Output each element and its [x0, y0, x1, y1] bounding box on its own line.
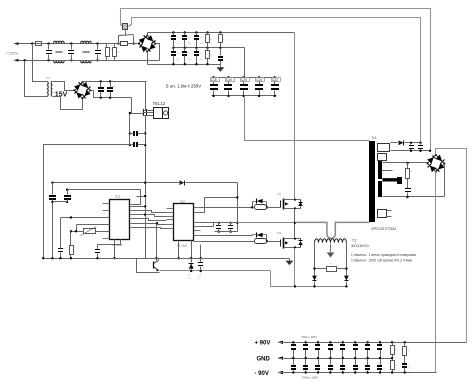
node mid rail col2 — [184, 47, 186, 49]
label C20 — [241, 78, 250, 82]
wire IC2 pin jog up — [201, 223, 214, 227]
wire CT secondary right down — [346, 243, 348, 275]
bridge rectifier VD2 (aux 15V) — [75, 83, 91, 99]
label C22 — [272, 78, 281, 82]
capacitor C19b under IC1 — [98, 240, 121, 245]
output capacitor C32 (top row) — [366, 341, 368, 343]
svg-text:IR-2110: IR-2110 — [178, 244, 188, 248]
node A8 — [132, 42, 134, 44]
svg-text:Tr1: Tr1 — [372, 136, 377, 140]
wire 0V rail — [148, 64, 221, 66]
wire caps top rail — [214, 222, 238, 224]
diode VD8 — [344, 276, 349, 281]
capacitor C13 (regulator input) — [143, 109, 144, 116]
wire input drop to aux transformer primary bottom — [24, 59, 26, 61]
wire IC2 bottom pin drop b — [200, 245, 202, 259]
MOSFET Q2 body diode — [300, 239, 302, 241]
choke L1 bottom winding — [54, 60, 65, 63]
wire IC2 bottom pin drop c — [178, 241, 180, 259]
svg-text:5 шт. 1.0м x 250V: 5 шт. 1.0м x 250V — [166, 84, 201, 89]
wire caps bottom rail — [215, 231, 238, 233]
svg-text:Tr3: Tr3 — [46, 76, 50, 80]
snubber resistor R12 — [406, 162, 408, 164]
node A4 — [70, 59, 72, 61]
wire IC2 jog to x237 — [201, 198, 238, 213]
wire lower aux rail y=271 — [160, 270, 271, 272]
varistor RU2 — [114, 44, 116, 48]
svg-text:C22: C22 — [272, 78, 278, 82]
output capacitor C40 (bottom row) — [367, 359, 369, 366]
node A1 — [47, 42, 49, 44]
output capacitor C38 (bottom row) — [342, 359, 344, 366]
gate network diode VD6 — [201, 235, 253, 237]
capacitor C17 — [66, 189, 68, 191]
node top rail col2 — [184, 31, 186, 33]
transformer Tr1 aux winding stub bottom — [391, 150, 431, 152]
wire aux bridge minus rail — [91, 91, 132, 98]
wire secondary center tap thick — [382, 178, 399, 181]
capacitor C18 — [212, 76, 214, 78]
wire y=189.7 to IC1 — [68, 190, 141, 205]
wire IC1-IC2 link 2 — [133, 219, 167, 221]
svg-text:32X16X10: 32X16X10 — [351, 244, 369, 248]
wire gate 2 to MOSFET — [267, 241, 281, 243]
wire bridge bottom to 0 rail — [147, 52, 149, 65]
transistor Q3 base loop — [137, 258, 157, 260]
wire left loop to control ground — [44, 145, 130, 259]
diode VD4 — [190, 270, 192, 272]
wire down to transistor — [156, 224, 158, 261]
relay contact K1.1 — [118, 36, 120, 44]
svg-text:1n: 1n — [408, 368, 410, 370]
wire stub y=196 — [137, 196, 146, 198]
wire mid rail — [174, 47, 245, 49]
svg-text:C19: C19 — [226, 78, 232, 82]
choke L1 top winding — [54, 41, 65, 44]
transformer Tr1 winding symbol 2 — [378, 154, 387, 161]
aux capacitor C23 — [410, 142, 412, 144]
node top rail col1 — [172, 31, 174, 33]
node mid rail col3 — [195, 47, 197, 49]
capacitor C7 (bottom row) — [173, 48, 175, 52]
wire Vcc rail y=182.7 — [53, 182, 180, 184]
node mid rail col4 — [206, 47, 208, 49]
transformer Tr1 lower winding symbol — [378, 210, 387, 218]
svg-text:EPCOS ETD54: EPCOS ETD54 — [372, 227, 397, 231]
ground control rail — [289, 259, 291, 261]
wire input drop to aux transformer primary top — [31, 42, 33, 44]
transformer Tr1 primary bar — [369, 141, 375, 222]
transformer Tr1 aux winding stub top — [391, 142, 398, 144]
wire IC1 pin to 12V rail b — [133, 214, 146, 216]
svg-text:C18: C18 — [211, 78, 217, 82]
svg-text:C20: C20 — [241, 78, 247, 82]
capacitor C6 (top row) — [196, 33, 198, 36]
diode VD7 — [312, 276, 317, 281]
capacitor C3 — [95, 50, 101, 51]
current transformer T2 core arrow — [330, 244, 332, 253]
resistor R8 — [70, 232, 72, 242]
wire half-bridge mid node — [294, 211, 296, 237]
transformer Tr1 secondary bar lower — [378, 181, 382, 197]
svg-text:T.2: T.2 — [352, 239, 357, 243]
capacitor C9 (bottom row) — [196, 48, 198, 52]
wire secondary top to aux bridge — [55, 82, 75, 91]
IC U2 left pins — [167, 208, 174, 210]
wire film bank bottom rail — [212, 95, 277, 97]
MOSFET Q1 — [280, 201, 282, 208]
node aux rail outer — [429, 150, 431, 152]
capacitor C12 (aux filter) — [109, 80, 111, 82]
AC input terminal lower — [14, 59, 19, 62]
output terminal +90V — [278, 341, 284, 344]
choke L2 top winding — [81, 41, 92, 44]
capacitor C20 — [242, 76, 244, 78]
wire gnd drop from regulator (x=130) — [129, 113, 131, 145]
transformer Tr1 secondary bar upper — [378, 161, 382, 179]
gate network diode VD5 — [201, 207, 253, 209]
capacitor C8 (bottom row) — [184, 48, 186, 52]
wire output bridge right to AC — [444, 164, 446, 197]
node mid rail col1 — [172, 47, 174, 49]
wire AC bottom line to bridge — [65, 60, 160, 62]
capacitor C1 — [46, 50, 52, 51]
output capacitor C28 (top row) — [317, 341, 319, 343]
wire gate 1 to MOSFET — [267, 207, 281, 209]
wire y=217.5 from cap to IC1 — [61, 217, 110, 219]
wire IC2 bottom pin drop a — [191, 241, 193, 259]
wire mid rail down to film cap bank — [244, 48, 246, 78]
wire IC1-IC2 link 4 — [133, 228, 167, 229]
wire film bank top rail — [212, 77, 277, 79]
gate resistor R10 — [255, 239, 267, 244]
MOSFET Q1 body diode — [300, 200, 302, 203]
output capacitor C26 (top row) — [292, 341, 294, 343]
capacitor C42 (right column) — [404, 361, 406, 364]
choke L2 core — [83, 51, 90, 53]
label C19 — [226, 78, 235, 82]
resistor R15 (right column) — [404, 341, 406, 343]
wire trimmer left down — [71, 231, 84, 233]
wire bridge right to AC2 — [156, 44, 160, 61]
aux capacitor C24 — [419, 142, 421, 144]
capacitor C16 — [51, 182, 53, 184]
svg-text:IC2: IC2 — [180, 200, 185, 204]
inrush resistor R3 — [121, 42, 128, 46]
wire jog down to CT rail — [271, 271, 347, 287]
snubber capacitor C25 — [405, 188, 411, 189]
MOSFET Q2 — [280, 240, 282, 247]
current transformer T2 secondary winding — [315, 239, 347, 243]
IC U1 left pins — [103, 203, 110, 205]
varistor RU1 — [106, 44, 108, 48]
wire IC1-IC2 link 3 — [133, 224, 167, 225]
output capacitor C29 (top row) — [329, 341, 331, 343]
wire secondary top to output bridge — [383, 162, 428, 164]
output capacitor C27 (top row) — [305, 341, 307, 343]
capacitor C22b — [200, 270, 202, 272]
trimmer R7 — [84, 229, 96, 234]
balancing resistor R13 (top) — [391, 341, 393, 343]
capacitor C21 — [258, 76, 260, 78]
wire aux minus to regulator — [132, 98, 143, 114]
svg-text:470м x 100V: 470м x 100V — [301, 335, 317, 339]
svg-text:+: + — [113, 84, 115, 88]
svg-text:Tv1: Tv1 — [277, 193, 282, 196]
fuse FU1 — [36, 42, 42, 46]
transformer Tr1 aux winding symbol — [378, 144, 390, 152]
wire -90V rail — [279, 372, 437, 374]
svg-text:- 90V: - 90V — [255, 371, 269, 377]
wire output bridge bottom — [435, 172, 437, 373]
node 0 rail col3 — [195, 63, 197, 65]
node A6 — [96, 59, 98, 61]
aux diode VD9 — [399, 140, 404, 145]
current transformer T2 primary loop — [295, 222, 369, 238]
capacitor C10 (to ground) — [220, 48, 222, 56]
balancing resistor R14 (bottom) — [392, 359, 394, 361]
output capacitor C37 (bottom row) — [330, 359, 332, 366]
node A2 — [47, 59, 49, 61]
wire IC1-IC2 link 5 — [155, 215, 167, 217]
capacitor C2 — [68, 50, 74, 51]
wire +310V rail — [148, 32, 295, 34]
node mid rail col5 — [219, 47, 221, 49]
svg-text:470м x 100V: 470м x 100V — [302, 375, 318, 379]
wire cap bottoms join — [53, 201, 68, 203]
capacitor C19 — [227, 76, 229, 78]
IC U1 right pins — [129, 204, 133, 206]
output bridge rectifier VD10 — [428, 155, 445, 172]
wire IC1 pin to 12V rail a — [133, 206, 146, 208]
wire aux loop outer top — [121, 9, 431, 151]
node A3 — [70, 42, 72, 44]
node 0 rail col4 — [206, 63, 208, 65]
burden resistor R11 — [327, 267, 337, 272]
output terminal GND — [278, 356, 284, 359]
choke L2 bottom winding — [81, 60, 92, 63]
capacitor C21b — [229, 222, 231, 224]
capacitor C14 (decoupling) — [129, 132, 131, 134]
svg-text:IC1: IC1 — [116, 195, 121, 199]
node x157 y223 — [156, 222, 158, 224]
node 0 rail col2 — [184, 63, 186, 65]
svg-text:GND: GND — [257, 356, 271, 362]
resistor R4 (top row) — [207, 33, 209, 35]
transformer Tr1 secondary mid tap — [382, 170, 393, 172]
wire IC1 bottom pin to ground rail — [114, 240, 116, 259]
node top rail col5 — [219, 31, 221, 33]
capacitor C22 — [274, 76, 276, 78]
capacitor C20b — [218, 222, 220, 224]
label C21 — [256, 78, 265, 82]
output capacitor C33 (top row) — [379, 341, 381, 343]
diode VD3 on Vcc rail — [180, 180, 185, 185]
wire x237 vertical — [237, 183, 239, 232]
svg-text:1n: 1n — [198, 277, 200, 279]
capacitor C15 (decoupling) — [129, 144, 131, 146]
transformer Tr3 primary winding — [46, 81, 49, 96]
output capacitor C39 (bottom row) — [355, 359, 357, 366]
transformer Tr1 lower winding stubs — [387, 210, 392, 212]
output capacitor C41 (bottom row) — [380, 359, 382, 366]
wire secondary bottom to aux bridge — [55, 97, 83, 110]
wire y=224 into IC1 — [77, 224, 110, 226]
wire +90V rail — [279, 342, 467, 344]
choke L1 core — [56, 51, 63, 53]
wire output bridge top — [436, 149, 467, 343]
wire film bank to primary top — [245, 96, 370, 141]
IC U2 right pins — [194, 207, 201, 209]
output capacitor C34 (bottom row) — [293, 359, 295, 366]
wire aux loop inner top — [132, 18, 421, 143]
capacitor C5 (top row) — [184, 33, 186, 36]
label C18 — [211, 78, 220, 82]
wire IC2 pin to mid rail — [201, 222, 214, 224]
svg-text:+ 90V: + 90V — [255, 341, 271, 347]
regulator U3 78L12 body — [154, 108, 163, 119]
node top rail col4 — [206, 31, 208, 33]
wire Q2 source down — [294, 250, 296, 287]
svg-text:2 обмотка - 2X50 100 витков d=: 2 обмотка - 2X50 100 витков d=0.2-0.4мм — [351, 258, 412, 262]
wire trimmer to IC1 — [96, 231, 110, 233]
wire aux bridge plus to 12V rail — [83, 82, 147, 83]
gate resistor R9 — [255, 205, 267, 210]
resistor R6 (top row col5) — [220, 33, 222, 35]
node A5 — [96, 42, 98, 44]
svg-text:Tv2: Tv2 — [277, 232, 282, 235]
node top rail col3 — [195, 31, 197, 33]
output capacitor C30 (top row) — [342, 341, 344, 343]
capacitor C18b — [60, 218, 62, 243]
IC U1 box — [110, 200, 130, 240]
bridge rectifier VD1 — [139, 36, 156, 52]
node 0 rail col1 — [172, 63, 174, 65]
transformer Tr3 secondary winding — [50, 81, 53, 96]
transistor Q3 — [153, 262, 155, 269]
wire CT secondary left down — [314, 243, 316, 275]
ground below capacitor bank — [220, 65, 222, 68]
capacitor C4 (top row) — [173, 33, 175, 36]
svg-text:1 обмотка - 1 виток, проводом: 1 обмотка - 1 виток, проводом 0=отмерани… — [351, 253, 416, 257]
output capacitor C31 (top row) — [354, 341, 356, 343]
output terminal -90V — [278, 371, 284, 374]
output capacitor C35 (bottom row) — [305, 359, 307, 366]
capacitor C11 (aux filter) — [100, 80, 102, 82]
AC input terminal upper — [14, 42, 19, 45]
wire IC1-IC2 link 1 — [133, 211, 167, 213]
resistor R5 (bottom row) — [207, 48, 209, 51]
wire secondary bottom rail — [383, 196, 445, 198]
svg-text:78L12: 78L12 — [153, 101, 166, 106]
svg-text:≈220V: ≈220V — [7, 50, 19, 55]
svg-text:15V: 15V — [55, 91, 68, 98]
svg-text:C21: C21 — [256, 78, 262, 82]
node A7 — [117, 42, 119, 44]
output capacitor C36 (bottom row) — [318, 359, 320, 366]
wire bridge top to +rail — [147, 33, 149, 36]
wire GND rail — [279, 358, 393, 360]
wire primary bottom to CT — [369, 222, 371, 224]
wire control ground rail — [44, 258, 290, 260]
regulator U3 78L12 pins — [143, 110, 154, 112]
wire 12V rail down (x=145) — [145, 82, 147, 111]
IC U2 box — [174, 204, 194, 241]
svg-text:+: + — [104, 84, 106, 88]
relay coil K1 — [123, 24, 128, 30]
